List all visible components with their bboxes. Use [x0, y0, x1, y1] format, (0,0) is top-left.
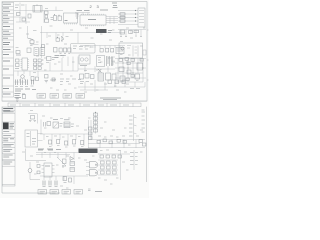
caps C30 C31 C32 — [100, 48, 114, 52]
main horizontal bus mid sheet1 — [28, 26, 126, 58]
wires top cluster sheet2 lower — [36, 152, 78, 160]
electrolytic caps row CE1-CE4 — [15, 80, 34, 87]
left column bottom text rows sheet1 — [15, 94, 26, 98]
IC U3 vertical — [21, 58, 30, 70]
relay block RL1 — [79, 55, 90, 66]
diode matrix sheet2 — [98, 160, 118, 175]
revision table strip between sheets — [2, 101, 147, 107]
component cluster mid-left with transistor Q2 — [56, 36, 64, 42]
caps row far right — [108, 80, 140, 89]
wires center low sheet1 — [78, 66, 115, 73]
bus sheet2 mid — [40, 120, 91, 148]
diodes D1 D2 — [76, 14, 79, 18]
parts bottom-mid sheet2 — [63, 177, 72, 183]
footer text sheet1 — [100, 98, 121, 100]
text beside logo — [10, 124, 15, 129]
right lower wire grid sheet1 — [115, 59, 146, 83]
bus with ticks under shield — [80, 46, 125, 49]
IC U2 main — [80, 14, 106, 26]
lower center parts row1 — [80, 74, 95, 84]
capacitor pair C1 C2 — [54, 14, 62, 20]
small part R5 — [16, 51, 21, 56]
wires mid-left lower — [14, 57, 78, 77]
wires right of U2 — [106, 17, 118, 25]
pin label column sheet2 — [129, 114, 137, 141]
labels above wires sheet2 lower — [38, 149, 53, 151]
right lower parts grid sheet1 — [119, 58, 144, 82]
transistor Q1 — [28, 38, 39, 45]
revision strip text sheet2 — [10, 104, 129, 106]
resistor R8 — [42, 45, 45, 48]
label right of HV1 — [108, 31, 112, 33]
resistor row R30s — [54, 48, 72, 56]
tuner block TU1 — [119, 43, 146, 58]
parts chain right of U10 — [62, 159, 75, 172]
hanging parts row sheet2 — [49, 140, 84, 148]
IC U10 sheet2 — [42, 163, 55, 177]
sheet 1 title column text rows — [3, 4, 11, 94]
border tick marks right edge sheet1 — [147, 30, 149, 80]
IC U1 — [64, 13, 78, 25]
sheet 2 border frame — [2, 107, 147, 193]
label row sheet2 — [38, 148, 61, 151]
block Z1 — [116, 48, 124, 54]
resistor box R20 — [120, 30, 125, 34]
label row above U2 — [100, 3, 118, 10]
wire bus above U2 — [75, 11, 90, 16]
buffer arrow symbol — [70, 157, 74, 161]
parts row above C-table — [52, 78, 81, 82]
gate G2 — [86, 170, 98, 176]
sheet 1 border frame — [2, 2, 147, 102]
resistors R10-R12 on CN2 wires — [120, 10, 136, 22]
value label texts sheet2 — [22, 111, 143, 189]
parts top-left corner — [15, 5, 31, 21]
lower rows sheet2 wires — [88, 140, 145, 149]
cluster X1 — [47, 57, 56, 61]
wires to CN2 — [118, 11, 138, 25]
transistor Q10 sheet2 — [53, 120, 63, 129]
bottom right bus sheet1 — [78, 80, 145, 92]
second chain sheet2 — [89, 127, 93, 140]
label block LB1 — [55, 56, 65, 58]
zener ladder sheet2 — [94, 112, 98, 134]
net name column right edge sheet2 — [142, 110, 146, 132]
capacitor table boxes row sheet2 — [38, 190, 83, 195]
connector CN2 top-right — [138, 8, 145, 27]
misc marks bottom sheet2 — [88, 189, 102, 192]
transistor Q3 — [19, 75, 26, 81]
IF block box sheet2 — [25, 130, 43, 147]
connector CN3 grid — [27, 48, 45, 56]
value label texts sheet1 — [16, 9, 146, 93]
capacitor C45 at column edge — [16, 95, 26, 102]
caps C40 C41 — [31, 75, 48, 81]
dark label bar HV1 — [96, 29, 107, 33]
connector CN1 pins — [45, 11, 54, 22]
gnd symbols row — [45, 80, 57, 83]
resistor block R60 sheet2 — [64, 120, 74, 128]
electrolytic caps bottom sheet2 — [43, 181, 58, 187]
dark IC bar sheet2 — [79, 149, 98, 154]
crystal cluster sheet2 — [28, 114, 38, 124]
sheet 1 title/notes column — [2, 2, 13, 97]
row of parts under dark bar — [98, 154, 130, 158]
wire top-left bus — [14, 3, 63, 25]
parts on lower rows sheet2 — [97, 139, 146, 146]
sheet 2 title header dark text — [3, 108, 13, 110]
transformer T1 top-left — [33, 6, 42, 13]
transistor Q12 sheet2 — [28, 162, 40, 180]
vertical bus right sheet2 — [121, 150, 135, 180]
sheet 2 title column — [2, 107, 15, 186]
logo block dark sheet2 — [3, 123, 9, 130]
lower center parts row2 hatched — [98, 73, 116, 81]
gate G1 — [86, 162, 98, 168]
diode D5 arrow — [98, 69, 102, 73]
parts left of U10 — [37, 165, 40, 174]
parts left of U3 — [15, 59, 19, 69]
capacitor table boxes row sheet1 — [37, 94, 85, 99]
sheet 2 title column text — [3, 112, 14, 164]
sub-circuit boundary sheet2 — [26, 149, 47, 161]
shield box SH1 — [71, 44, 96, 54]
resistor array rows RN1 — [34, 59, 44, 69]
text labels bottom-left block — [15, 89, 36, 91]
wires above caps sheet2 — [40, 176, 88, 184]
diagonal wire sheet2 — [57, 157, 66, 166]
transformer T2 block — [97, 56, 116, 67]
input cluster A sheet2 — [41, 120, 51, 134]
caps row top-right C20s — [118, 30, 146, 37]
